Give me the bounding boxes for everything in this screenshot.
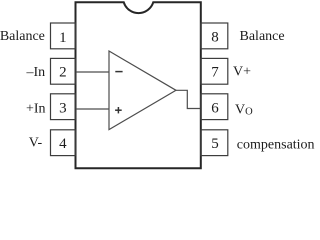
pin 1 box xyxy=(51,23,76,49)
pin 2 box xyxy=(51,58,76,84)
pin 6 box xyxy=(201,94,228,120)
IC body U1 (8-pin DIP outline with notch) xyxy=(76,2,201,168)
svg-text:4: 4 xyxy=(59,136,67,152)
wire op-amp output to pin 6 xyxy=(176,90,200,108)
op-amp non-inverting input sign + xyxy=(115,109,122,111)
svg-text:1: 1 xyxy=(59,30,67,46)
svg-text:compensation: compensation xyxy=(237,137,315,152)
svg-text:7: 7 xyxy=(211,65,219,81)
svg-text:V+: V+ xyxy=(233,65,251,80)
svg-text:2: 2 xyxy=(59,65,67,81)
pin 7 box xyxy=(201,58,228,84)
wire pin2 to inverting input xyxy=(76,71,109,73)
svg-text:5: 5 xyxy=(211,136,219,152)
pin 5 box xyxy=(201,130,228,156)
svg-text:+In: +In xyxy=(26,101,46,116)
pin 3 box xyxy=(51,94,76,120)
svg-text:VO: VO xyxy=(235,102,253,117)
wire pin3 to non-inverting input xyxy=(76,108,109,110)
svg-text:6: 6 xyxy=(211,100,219,116)
op-amp inverting input sign - xyxy=(115,71,122,73)
op-amp U1 triangle xyxy=(109,51,176,130)
pin 4 box xyxy=(51,130,76,156)
svg-text:V-: V- xyxy=(29,135,43,150)
svg-text:Balance: Balance xyxy=(240,29,285,44)
pin 8 box xyxy=(201,23,228,49)
svg-text:Balance: Balance xyxy=(0,29,45,44)
svg-text:3: 3 xyxy=(59,100,67,116)
svg-text:–In: –In xyxy=(26,65,46,80)
svg-text:8: 8 xyxy=(211,30,219,46)
